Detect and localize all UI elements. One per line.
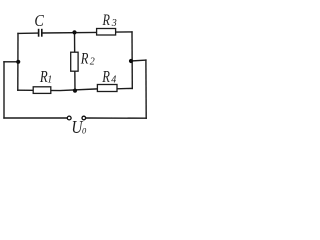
capacitor C plates <box>39 29 42 37</box>
resistor R1 body <box>33 87 51 94</box>
wire top left segment (corner to capacitor) <box>18 32 38 34</box>
node dot bottom (R2/middle wire junction) <box>73 89 77 93</box>
terminal left (open circle) <box>67 116 71 120</box>
resistor R3 body <box>97 29 116 36</box>
wire right inner vertical <box>131 32 133 89</box>
resistor R4 body <box>97 85 117 92</box>
wire middle horizontal left part <box>18 89 97 91</box>
svg-text:2: 2 <box>90 56 95 67</box>
svg-text:C: C <box>34 12 44 30</box>
wire middle horizontal right part (R4 to corner) <box>117 87 132 89</box>
wire right outer vertical <box>145 60 147 118</box>
wire left inner vertical <box>17 33 19 90</box>
node dot right <box>129 59 133 63</box>
svg-text:R: R <box>101 68 110 86</box>
wire R2 vertical branch <box>74 32 77 90</box>
terminal right (open circle) <box>82 116 86 120</box>
wire left outer vertical <box>3 62 5 118</box>
svg-text:3: 3 <box>111 18 117 29</box>
svg-text:4: 4 <box>111 74 116 85</box>
svg-text:R: R <box>102 13 111 30</box>
wire right stub horizontal <box>131 59 146 62</box>
wire bottom right segment <box>86 117 146 119</box>
wire bottom left segment <box>4 117 67 119</box>
wire top mid segment (capacitor to R3) <box>43 31 97 34</box>
node dot top (R2/top wire junction) <box>72 30 76 34</box>
svg-text:1: 1 <box>47 75 52 86</box>
wire top right segment (R3 to right elbow) <box>116 31 132 33</box>
wire left stub horizontal <box>4 61 18 63</box>
svg-text:R: R <box>80 50 89 68</box>
resistor R2 body <box>71 52 78 71</box>
node dot left <box>16 60 20 64</box>
